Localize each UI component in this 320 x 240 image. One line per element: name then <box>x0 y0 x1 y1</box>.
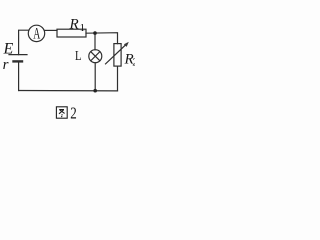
svg-text:r: r <box>3 57 9 73</box>
svg-text:E: E <box>3 40 14 57</box>
svg-text:R: R <box>69 16 79 32</box>
svg-text:1: 1 <box>80 22 86 34</box>
svg-text:2: 2 <box>132 57 135 69</box>
svg-text:A: A <box>33 25 40 42</box>
svg-text:2: 2 <box>70 104 77 123</box>
svg-text:L: L <box>75 49 82 64</box>
